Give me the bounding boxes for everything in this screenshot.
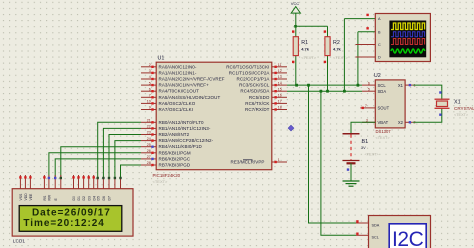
svg-text:4.7k: 4.7k: [301, 46, 310, 51]
svg-text:RA0/AN0/C12IN0-: RA0/AN0/C12IN0-: [159, 64, 197, 69]
svg-text:RB5/KBI1/PGM: RB5/KBI1/PGM: [159, 150, 191, 155]
svg-text:<TEXT>: <TEXT>: [301, 55, 317, 60]
svg-text:VEE: VEE: [29, 193, 33, 201]
svg-text:2: 2: [149, 63, 151, 67]
svg-text:22: 22: [147, 125, 151, 129]
svg-text:RB2/AN8/INT2: RB2/AN8/INT2: [159, 132, 190, 137]
svg-text:RW: RW: [48, 194, 52, 200]
svg-text:<TEXT>: <TEXT>: [376, 136, 391, 140]
svg-text:D3: D3: [87, 196, 91, 200]
svg-text:17: 17: [278, 100, 282, 104]
svg-text:RC1/T1OSI/CCP2A: RC1/T1OSI/CCP2A: [229, 70, 270, 75]
svg-text:9: 9: [149, 106, 151, 110]
svg-text:6: 6: [368, 81, 370, 85]
svg-text:VDD: VDD: [24, 193, 28, 201]
svg-text:<TEXT>: <TEXT>: [153, 179, 169, 184]
svg-text:RC6/TX/CK: RC6/TX/CK: [245, 101, 269, 106]
svg-text:24: 24: [147, 137, 151, 141]
svg-text:D7: D7: [108, 196, 112, 200]
svg-text:<TEXT>: <TEXT>: [454, 113, 469, 117]
svg-text:DS1307: DS1307: [376, 129, 392, 134]
svg-text:D1: D1: [77, 196, 81, 200]
svg-text:RB1/AN10/INT1/C12IN3-: RB1/AN10/INT1/C12IN3-: [159, 126, 211, 131]
svg-text:R1: R1: [301, 40, 308, 46]
svg-text:I2C: I2C: [392, 228, 424, 248]
svg-text:X2: X2: [398, 120, 404, 125]
svg-text:25: 25: [147, 143, 151, 147]
svg-text:<TEXT>: <TEXT>: [333, 55, 349, 60]
svg-text:3V: 3V: [361, 146, 366, 150]
svg-text:U1: U1: [158, 56, 165, 62]
svg-text:RA3/AN3/C1IN+/VREF+: RA3/AN3/C1IN+/VREF+: [159, 83, 210, 88]
svg-text:RE3/MCLR/VPP: RE3/MCLR/VPP: [231, 160, 265, 165]
svg-text:1: 1: [278, 158, 280, 162]
svg-text:VBAT: VBAT: [378, 120, 389, 125]
svg-text:21: 21: [147, 119, 151, 123]
svg-text:23: 23: [147, 131, 151, 135]
svg-text:B1: B1: [362, 139, 369, 145]
svg-text:10: 10: [147, 100, 151, 104]
svg-text:26: 26: [147, 149, 151, 153]
svg-text:4.7k: 4.7k: [333, 46, 342, 51]
svg-text:PIC18F24K20: PIC18F24K20: [153, 173, 181, 178]
svg-text:RB6/KBI2/PGC: RB6/KBI2/PGC: [159, 156, 191, 161]
svg-text:RB3/AN9/CCP2B/C12IN2-: RB3/AN9/CCP2B/C12IN2-: [159, 138, 214, 143]
svg-text:16: 16: [278, 94, 282, 98]
svg-text:RC3/SCK/SCL: RC3/SCK/SCL: [239, 83, 270, 88]
svg-text:LCD1: LCD1: [13, 239, 26, 245]
svg-text:U2: U2: [374, 73, 381, 79]
svg-text:RA2/AN2/C2IN+/VREF-/CVREF: RA2/AN2/C2IN+/VREF-/CVREF: [159, 77, 225, 82]
svg-text:SCL: SCL: [378, 83, 387, 88]
svg-text:3: 3: [149, 69, 151, 73]
svg-text:11: 11: [278, 63, 282, 67]
svg-text:5: 5: [149, 81, 151, 85]
svg-text:27: 27: [147, 155, 151, 159]
svg-text:D: D: [378, 56, 381, 60]
svg-text:SOUT: SOUT: [378, 106, 390, 111]
svg-text:RC5/SDO: RC5/SDO: [249, 95, 270, 100]
svg-text:7: 7: [149, 94, 151, 98]
svg-text:RA5/AN4/SS/HLVDIN/C2OUT: RA5/AN4/SS/HLVDIN/C2OUT: [159, 95, 221, 100]
svg-text:18: 18: [278, 106, 282, 110]
svg-text:X1: X1: [454, 100, 461, 106]
svg-text:14: 14: [278, 81, 282, 85]
svg-text:VCC: VCC: [291, 1, 300, 6]
svg-text:5: 5: [368, 87, 370, 91]
svg-text:RB4/AN11/KBI0/P1D: RB4/AN11/KBI0/P1D: [159, 144, 203, 149]
svg-text:RS: RS: [43, 195, 47, 200]
svg-text:C: C: [378, 43, 381, 47]
svg-text:6: 6: [149, 87, 151, 91]
svg-text:RB7/KBI3/PGD: RB7/KBI3/PGD: [159, 163, 191, 168]
svg-text:15: 15: [278, 87, 282, 91]
svg-text:Date=26/09/17: Date=26/09/17: [32, 207, 111, 218]
svg-text:RC2/CCP1/P1A: RC2/CCP1/P1A: [237, 77, 270, 82]
svg-text:SCL: SCL: [372, 235, 379, 239]
svg-text:RB0/AN12/INT0/FLT0: RB0/AN12/INT0/FLT0: [159, 120, 205, 125]
svg-text:CRYSTAL: CRYSTAL: [454, 106, 474, 111]
svg-text:RC0/T1OSO/T13CKI: RC0/T1OSO/T13CKI: [226, 64, 269, 69]
svg-text:4: 4: [149, 75, 151, 79]
svg-text:12: 12: [278, 69, 282, 73]
svg-text:VSS: VSS: [19, 193, 23, 201]
svg-text:7: 7: [365, 104, 367, 108]
svg-text:<TEXT>: <TEXT>: [365, 153, 380, 157]
svg-text:RC7/RX/DT: RC7/RX/DT: [245, 107, 270, 112]
svg-text:Time=20:12:24: Time=20:12:24: [23, 218, 104, 229]
svg-text:X1: X1: [398, 83, 404, 88]
svg-text:RC4/SDI/SDA: RC4/SDI/SDA: [240, 89, 269, 94]
svg-text:R2: R2: [333, 40, 340, 46]
svg-text:SDA: SDA: [372, 224, 380, 228]
svg-text:SDA: SDA: [378, 89, 387, 94]
svg-text:D0: D0: [72, 196, 76, 200]
svg-text:RA4/T0CKI/C1OUT: RA4/T0CKI/C1OUT: [159, 89, 200, 94]
svg-text:D6: D6: [102, 196, 106, 200]
svg-text:D5: D5: [96, 196, 100, 200]
svg-text:28: 28: [147, 161, 151, 165]
svg-text:RA1/AN1/C12IN1-: RA1/AN1/C12IN1-: [159, 70, 197, 75]
svg-text:RA6/OSC2/CLKO: RA6/OSC2/CLKO: [159, 101, 196, 106]
svg-text:D2: D2: [82, 196, 86, 200]
svg-text:RA7/OSC1/CLKI: RA7/OSC1/CLKI: [159, 107, 194, 112]
svg-text:13: 13: [278, 75, 282, 79]
